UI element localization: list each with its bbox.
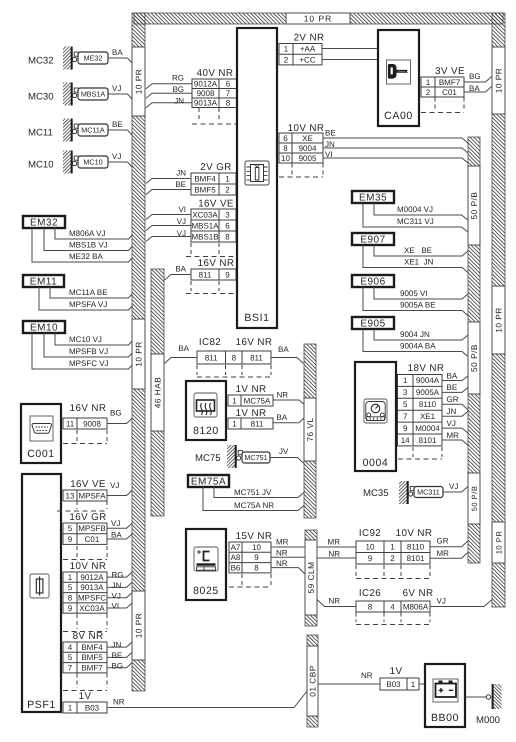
splice EM11	[23, 275, 64, 288]
svg-text:MPSFB VJ: MPSFB VJ	[69, 347, 108, 356]
svg-text:ME32: ME32	[84, 54, 103, 63]
svg-text:MPSFA: MPSFA	[78, 491, 106, 500]
connector MBS1A on MC30	[78, 88, 108, 100]
wire 8101 MR to 50 P/B	[442, 431, 469, 446]
svg-text:JN: JN	[325, 140, 335, 149]
svg-text:NR: NR	[277, 391, 289, 400]
svg-text:9004: 9004	[299, 144, 317, 153]
svg-text:8110: 8110	[407, 543, 425, 552]
svg-text:VJ: VJ	[111, 519, 120, 528]
ground MC35	[363, 481, 414, 504]
module BSI1	[237, 28, 277, 328]
wire 9005 VI	[374, 287, 469, 299]
dashed continuation IC92	[356, 565, 430, 579]
svg-text:1: 1	[284, 45, 289, 54]
wire MPSFC VJ	[32, 333, 133, 369]
svg-text:MPSFA VJ: MPSFA VJ	[69, 300, 107, 309]
svg-text:811: 811	[205, 353, 218, 362]
label 10 PR left B	[132, 319, 145, 389]
dashed continuation 40V NR	[192, 108, 237, 124]
svg-text:9: 9	[225, 270, 230, 279]
wire B03 to BB00	[419, 683, 425, 685]
svg-text:10 PR: 10 PR	[133, 69, 143, 95]
harness 10 PR left segment D	[132, 660, 145, 691]
wire XE BE to 50 P/B	[323, 129, 469, 144]
svg-text:CA00: CA00	[384, 110, 413, 122]
svg-text:9008: 9008	[197, 89, 215, 98]
svg-text:M806A VJ: M806A VJ	[69, 229, 105, 238]
svg-text:MC35: MC35	[363, 488, 389, 499]
wire PSF1 10V NR row3 VJ to 10PR	[107, 591, 133, 600]
dashed continuation IC82	[197, 365, 271, 377]
svg-text:9: 9	[68, 535, 73, 544]
svg-text:M000: M000	[476, 715, 500, 726]
svg-text:+CC: +CC	[299, 55, 315, 64]
wire M806A VJ to 10PR	[430, 597, 492, 607]
svg-text:8025: 8025	[193, 585, 219, 597]
dashed continuation 16V GR PSF1	[63, 546, 107, 560]
wire 9005 VI to 50 P/B	[323, 150, 469, 164]
svg-text:MC10 VJ: MC10 VJ	[69, 335, 102, 344]
wire C01 BA to 10PR	[107, 531, 133, 540]
dashed continuation IC26	[356, 613, 430, 625]
svg-text:BA: BA	[278, 345, 289, 354]
wire 8101 NR from 59 CLM	[317, 550, 356, 559]
svg-text:BMF4: BMF4	[81, 643, 103, 652]
svg-text:7: 7	[226, 89, 231, 98]
splice EM10	[23, 321, 65, 334]
wire MPSFA VJ	[39, 287, 133, 310]
label 10 PR right C	[492, 522, 505, 563]
svg-text:9: 9	[368, 554, 373, 563]
svg-text:MC30: MC30	[28, 92, 54, 103]
svg-text:10 PR: 10 PR	[493, 307, 503, 333]
label 10 PR right A	[492, 47, 505, 114]
svg-text:BSI1: BSI1	[244, 312, 269, 324]
svg-text:EM11: EM11	[30, 277, 57, 288]
wire MBS1A VJ	[146, 217, 191, 231]
svg-text:BA: BA	[111, 531, 122, 540]
svg-text:BA: BA	[112, 48, 123, 57]
svg-text:9: 9	[403, 424, 408, 433]
svg-text:M806A: M806A	[403, 602, 429, 611]
wire MC11A BE to harness 10PR	[108, 120, 133, 136]
svg-text:7: 7	[403, 412, 408, 421]
svg-text:C001: C001	[27, 448, 55, 460]
svg-text:811: 811	[199, 270, 212, 279]
svg-text:811: 811	[251, 419, 264, 428]
connector 10V NR of PSF1	[63, 561, 107, 613]
svg-text:BE: BE	[325, 129, 336, 138]
svg-text:7: 7	[68, 664, 73, 673]
svg-text:JN: JN	[447, 407, 457, 416]
dashed continuation 8V NR PSF1	[63, 674, 107, 691]
svg-text:BG: BG	[172, 85, 184, 94]
splice EM75A	[188, 475, 229, 488]
svg-text:10 PR: 10 PR	[304, 14, 333, 24]
svg-text:6V NR: 6V NR	[403, 588, 434, 599]
wire M806A NR from 59 CLM	[317, 597, 356, 607]
svg-text:1: 1	[426, 78, 431, 87]
svg-text:A8: A8	[231, 553, 241, 562]
svg-text:1V NR: 1V NR	[236, 408, 267, 419]
svg-text:1: 1	[232, 419, 237, 428]
ground M000	[476, 684, 502, 726]
svg-text:XC03A: XC03A	[79, 604, 105, 613]
svg-text:16V NR: 16V NR	[70, 403, 107, 414]
svg-text:NR: NR	[276, 559, 288, 568]
svg-text:BA: BA	[178, 344, 189, 353]
svg-text:2V GR: 2V GR	[200, 162, 231, 173]
svg-text:1: 1	[225, 174, 230, 183]
connector ME32 on MC32	[78, 52, 108, 64]
svg-text:EM32: EM32	[30, 218, 58, 229]
svg-text:JN: JN	[112, 641, 122, 650]
svg-text:C01: C01	[85, 535, 100, 544]
svg-text:10V NR: 10V NR	[396, 528, 433, 539]
svg-text:NR: NR	[328, 550, 340, 559]
svg-text:16V VE: 16V VE	[70, 479, 106, 490]
wire 9004A BA	[363, 329, 469, 357]
svg-text:VI: VI	[178, 205, 186, 214]
label 10 PR left A	[132, 47, 145, 116]
svg-text:16V NR: 16V NR	[236, 337, 273, 348]
svg-text:MC32: MC32	[28, 56, 54, 67]
wire ME32 BA to harness 10PR	[108, 48, 133, 64]
svg-text:9005 VI: 9005 VI	[400, 289, 428, 298]
svg-text:XE: XE	[302, 134, 313, 143]
svg-text:1: 1	[411, 680, 416, 689]
wire MC311 VJ	[363, 203, 469, 233]
label 10 PR top	[286, 13, 350, 24]
label 46 HAB	[151, 354, 164, 431]
wire BMF5 BE	[146, 180, 191, 195]
svg-text:BE: BE	[112, 651, 123, 660]
svg-text:BMF4: BMF4	[194, 174, 216, 183]
svg-text:MC311: MC311	[417, 488, 440, 497]
svg-text:MC311 VJ: MC311 VJ	[397, 217, 434, 226]
ground MC75	[195, 445, 242, 468]
wire MC75A NR	[203, 487, 305, 511]
dashed continuation 16V VE	[186, 243, 240, 257]
svg-text:8: 8	[225, 232, 230, 241]
svg-text:1: 1	[68, 573, 73, 582]
wire 8110 GR to 50 P/B	[430, 537, 469, 547]
harness 10 PR left segment A	[132, 13, 145, 47]
label 10 PR right B	[492, 286, 505, 354]
svg-text:9: 9	[254, 553, 259, 562]
dashed continuation 10V NR	[279, 164, 323, 178]
connector 15V NR of 8025	[229, 531, 272, 573]
svg-text:BA: BA	[277, 413, 288, 422]
svg-text:NR: NR	[328, 597, 340, 606]
connector 1V NR of 8120 pin1 MC75A	[228, 384, 273, 406]
svg-text:VJ: VJ	[110, 481, 119, 490]
svg-text:9004 JN: 9004 JN	[400, 330, 430, 339]
svg-text:XE1: XE1	[420, 412, 436, 421]
svg-text:10V NR: 10V NR	[288, 123, 325, 134]
wire MC10 VJ	[55, 333, 133, 345]
label 50 P/B C	[468, 473, 480, 524]
connector 16V NR of C001	[63, 403, 107, 429]
splice E905	[352, 317, 394, 330]
harness 10 PR right segment D	[492, 563, 505, 607]
component 8120 heated rear window	[186, 381, 226, 440]
svg-text:MC11A BE: MC11A BE	[69, 288, 108, 297]
ground MC30	[28, 83, 78, 106]
wire BMF4 JN	[146, 169, 191, 184]
wire 9005A BE to 50 P/B	[442, 383, 469, 392]
ground MC32	[28, 47, 78, 70]
junction IC92 10V NR	[356, 528, 432, 564]
label 50 P/B B	[468, 322, 480, 394]
wire 811 BA to 76 VL bus	[273, 413, 305, 423]
connector 1V of BB00	[380, 666, 419, 690]
wire 8110 MR	[271, 538, 305, 548]
wire XE1 JN to 50 P/B	[442, 407, 469, 416]
svg-text:IC26: IC26	[359, 588, 381, 599]
wire MC10 VJ to harness 10PR	[108, 152, 133, 168]
svg-text:16V NR: 16V NR	[198, 258, 235, 269]
harness 50 P/B segment C	[468, 394, 480, 473]
svg-text:BE: BE	[112, 120, 123, 129]
wire BMF7 BG to 10PR	[464, 72, 492, 82]
svg-text:E905: E905	[360, 319, 385, 330]
svg-text:NR: NR	[276, 549, 288, 558]
wire PSF1 10V NR row4 VI to 10PR	[107, 602, 133, 611]
svg-text:8110: 8110	[419, 400, 437, 409]
module 0004 instrument cluster	[355, 362, 396, 471]
svg-text:16V GR: 16V GR	[69, 512, 106, 523]
svg-text:BMF5: BMF5	[194, 185, 216, 194]
svg-text:4: 4	[68, 643, 73, 652]
svg-text:0004: 0004	[363, 457, 389, 469]
svg-text:76 VL: 76 VL	[305, 417, 315, 441]
svg-text:MBS1A: MBS1A	[81, 90, 106, 99]
connector 2V GR of BSI1	[191, 162, 236, 195]
harness 50 P/B segment B	[468, 245, 480, 322]
svg-text:9: 9	[68, 604, 73, 613]
svg-text:11: 11	[66, 419, 75, 428]
svg-text:B03: B03	[85, 703, 100, 712]
svg-text:9005A BE: 9005A BE	[400, 301, 436, 310]
label 10 PR left C	[132, 591, 145, 660]
svg-text:1: 1	[68, 703, 73, 712]
svg-text:8: 8	[254, 564, 259, 573]
harness 10 PR top band	[134, 13, 503, 24]
svg-text:XE1 JN: XE1 JN	[404, 258, 434, 267]
wire MPSFA VJ to 10PR	[107, 481, 133, 496]
wire MBS1A VJ to harness 10PR	[108, 84, 133, 100]
svg-text:EM35: EM35	[359, 193, 387, 204]
connector 3V VE of CA00	[421, 66, 465, 97]
wire MC11A BE	[50, 287, 133, 298]
svg-text:1: 1	[232, 396, 237, 405]
svg-text:9012A: 9012A	[80, 573, 104, 582]
svg-text:MBS1A: MBS1A	[191, 221, 219, 230]
wire 9005A BE	[363, 287, 469, 316]
connector MC751 on MC75	[242, 452, 270, 463]
svg-text:IC92: IC92	[359, 528, 381, 539]
svg-text:BE: BE	[447, 383, 458, 392]
wire ME32 BA	[32, 228, 133, 262]
junction IC26 6V NR	[356, 588, 433, 612]
wire MPSFB VJ to 10PR	[107, 519, 133, 528]
dashed continuation 18V NR	[398, 447, 442, 459]
svg-text:2: 2	[390, 554, 395, 563]
wire PSF1 8V NR row1 JN to 10PR	[107, 641, 133, 650]
svg-text:9008: 9008	[83, 419, 101, 428]
svg-text:BG: BG	[112, 661, 124, 670]
svg-text:MC10: MC10	[83, 158, 102, 167]
wire 8101 MR to 50 P/B	[430, 549, 469, 558]
svg-text:IC82: IC82	[199, 337, 221, 348]
svg-text:MC11A: MC11A	[81, 126, 105, 135]
svg-text:GR: GR	[447, 395, 459, 404]
svg-text:JN: JN	[112, 581, 122, 590]
wire MC75A NR to 76 VL	[273, 391, 305, 405]
svg-text:VJ: VJ	[112, 591, 121, 600]
wire +AA to CA00	[322, 48, 378, 50]
svg-text:13: 13	[66, 491, 75, 500]
wire 9012A RG	[146, 74, 192, 89]
svg-text:01 CBP: 01 CBP	[307, 665, 317, 697]
svg-text:VJ: VJ	[437, 597, 446, 606]
svg-text:811: 811	[250, 353, 263, 362]
svg-text:RG: RG	[172, 74, 184, 83]
svg-text:EM75A: EM75A	[191, 477, 226, 488]
component 8025 climate control	[186, 529, 226, 600]
svg-text:B6: B6	[231, 564, 241, 573]
svg-text:XC03A: XC03A	[192, 210, 218, 219]
wire B03 NR to 01 CBP	[107, 691, 308, 708]
svg-text:9012A: 9012A	[194, 80, 218, 89]
wire 8110 MR from 59 CLM	[317, 538, 356, 548]
ground MC11	[28, 119, 78, 142]
wire 8110 GR to 50 P/B	[442, 395, 469, 410]
wire M0004 VJ	[374, 203, 469, 221]
harness 46 HAB segment B	[151, 431, 164, 516]
svg-text:8: 8	[283, 144, 288, 153]
svg-text:VJ: VJ	[112, 84, 121, 93]
svg-text:2: 2	[225, 185, 230, 194]
dashed continuation 16V VE PSF1	[57, 501, 108, 511]
harness 01 CBP segment B	[307, 716, 318, 727]
connector 16V VE of PSF1	[63, 479, 107, 501]
svg-text:1V: 1V	[79, 691, 92, 702]
svg-text:10: 10	[366, 543, 375, 552]
svg-text:BA: BA	[469, 84, 480, 93]
splice EM35	[352, 191, 394, 204]
harness 50 P/B segment D	[468, 524, 480, 563]
svg-text:1V: 1V	[390, 666, 403, 677]
svg-text:9005: 9005	[299, 154, 317, 163]
connector 2V NR of BSI1	[279, 33, 324, 65]
wire XC03A VI	[146, 205, 191, 220]
svg-text:MR: MR	[437, 549, 450, 558]
svg-text:1: 1	[403, 376, 408, 385]
svg-text:M0004: M0004	[415, 424, 440, 433]
wire +CC to CA00	[322, 59, 378, 61]
svg-text:3V VE: 3V VE	[435, 66, 465, 77]
svg-text:VJ: VJ	[449, 482, 458, 491]
svg-text:8: 8	[368, 602, 373, 611]
svg-text:8120: 8120	[193, 425, 219, 437]
svg-text:EM10: EM10	[30, 323, 58, 334]
svg-text:14: 14	[401, 436, 410, 445]
svg-text:50 P/B: 50 P/B	[469, 192, 479, 220]
svg-text:BA: BA	[447, 371, 458, 380]
svg-text:MC751: MC751	[244, 453, 267, 462]
connector 40V NR of BSI1	[192, 68, 237, 108]
svg-text:15V NR: 15V NR	[236, 531, 273, 542]
harness 10 PR left segment C	[132, 389, 145, 591]
svg-text:MPSFC: MPSFC	[78, 594, 106, 603]
svg-text:NR: NR	[361, 671, 373, 680]
connector 8V NR of PSF1	[63, 631, 107, 673]
svg-text:MR: MR	[447, 431, 460, 440]
harness 59 CLM segment B	[305, 615, 317, 626]
harness 76 VL segment A	[304, 344, 316, 398]
svg-text:9004A: 9004A	[416, 376, 440, 385]
svg-text:MC75A: MC75A	[244, 396, 271, 405]
svg-text:VJ: VJ	[112, 152, 121, 161]
wire MC751 JV to 76 VL	[270, 447, 304, 464]
wire MBS1B VJ to bus	[146, 229, 191, 242]
svg-text:8: 8	[232, 353, 237, 362]
svg-text:5: 5	[68, 524, 73, 533]
svg-text:E907: E907	[360, 235, 385, 246]
connector MC311 on MC35	[414, 487, 443, 498]
svg-text:10V NR: 10V NR	[70, 561, 107, 572]
svg-text:8V NR: 8V NR	[73, 631, 104, 642]
svg-text:2V NR: 2V NR	[294, 33, 325, 44]
wire 9013A JN	[146, 97, 192, 108]
svg-text:C01: C01	[442, 88, 457, 97]
wire 9004A BA to 50 P/B	[442, 371, 469, 380]
component BB00 battery	[425, 664, 465, 727]
wire MPSFB VJ	[44, 333, 133, 357]
harness 01 CBP segment A	[307, 635, 318, 646]
harness 10 PR left segment B	[132, 116, 145, 319]
svg-text:5: 5	[68, 583, 73, 592]
module CA00 ignition switch	[378, 30, 419, 126]
wire 811 BA to 46 HAB	[165, 265, 192, 281]
svg-text:1: 1	[390, 543, 395, 552]
harness 50 P/B segment A	[468, 137, 480, 166]
svg-text:BE: BE	[175, 180, 186, 189]
ground MC10	[28, 151, 78, 174]
component PSF1 engine fusebox	[22, 474, 61, 712]
wire B03 NR from 01 CBP	[318, 671, 380, 684]
svg-text:JV: JV	[279, 447, 289, 456]
svg-text:9005A: 9005A	[416, 388, 440, 397]
dashed continuation 16V NR	[186, 281, 240, 294]
svg-text:9004A BA: 9004A BA	[400, 342, 436, 351]
svg-text:PSF1: PSF1	[27, 699, 56, 711]
svg-text:BG: BG	[469, 72, 481, 81]
svg-text:A7: A7	[231, 543, 241, 552]
svg-text:VI: VI	[112, 602, 120, 611]
splice E907	[352, 233, 394, 246]
svg-text:9013A: 9013A	[194, 99, 218, 108]
svg-text:MPSFC VJ: MPSFC VJ	[69, 359, 109, 368]
wire C01 BA to 10PR	[464, 84, 492, 93]
svg-text:+AA: +AA	[300, 45, 316, 54]
svg-text:10: 10	[281, 154, 290, 163]
svg-text:4: 4	[390, 602, 395, 611]
svg-text:10 PR: 10 PR	[494, 531, 503, 555]
